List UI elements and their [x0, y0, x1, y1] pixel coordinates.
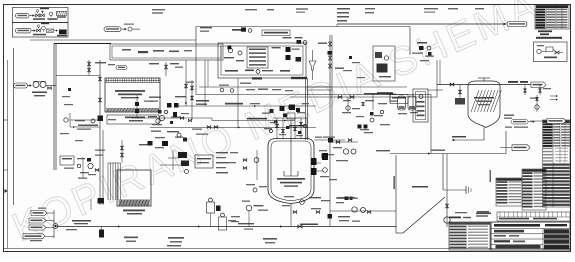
inner boundary y87: [199, 86, 407, 88]
junction two-line label: [196, 100, 209, 102]
vertical x330 lower: [329, 180, 331, 227]
bottom pipe valve: [298, 225, 302, 228]
unit boundary box inner: [221, 46, 303, 75]
unit dark squares right: [286, 47, 291, 52]
small column vessels: [398, 96, 406, 110]
tank T2 shell: [117, 170, 151, 206]
top mid small texts: [95, 62, 106, 63]
reactor motor: [287, 113, 295, 119]
tank T1 lower box: [107, 115, 159, 124]
dark pump pair above: [98, 198, 105, 204]
reactor right comps: [323, 168, 328, 173]
reactor outlet to pipe: [290, 212, 292, 227]
reactor feed header: [273, 117, 307, 119]
dark instrument below pipe: [99, 230, 104, 238]
title block frame: [491, 222, 570, 250]
legend box 2 caption texts: [33, 34, 46, 36]
overhead capsule flag: [531, 82, 546, 88]
equipment table A: [496, 178, 522, 206]
reactor side dark valves: [311, 158, 317, 165]
tank T2 feed valves: [121, 146, 124, 150]
junction cluster texts: [148, 116, 157, 117]
instrument box E outer: [413, 89, 428, 122]
cluster right of B1 box: [417, 42, 427, 44]
reactor agitator impeller: [284, 171, 298, 176]
pipe y190 battery limit: [443, 189, 466, 191]
left vertical drop x72: [69, 113, 71, 127]
feed pumps P1 P2: [33, 82, 39, 88]
legend box 2 arrow: [32, 30, 36, 32]
instrument box y95: [390, 95, 408, 104]
crystallizer shell: [468, 81, 500, 128]
mid right box with comps: [373, 46, 395, 81]
title block company line: [494, 224, 540, 227]
legend box 2 dark equipment box: [59, 30, 67, 35]
texts near strip columns: [231, 216, 240, 217]
unit pumps: [228, 48, 232, 52]
nest lines to right bus: [308, 86, 331, 88]
comps above unit: [232, 29, 243, 31]
cluster left of reactor outlet: [253, 188, 257, 192]
inlet collector line: [53, 210, 55, 238]
top-right reference table: [535, 5, 569, 29]
boundary line top y26.5: [196, 26, 410, 28]
cluster row below unit: [220, 88, 224, 92]
boundary x506: [505, 131, 507, 154]
vertical x192 with valves: [191, 80, 193, 120]
strip column 2: [219, 217, 227, 230]
comp right above T2: [139, 144, 151, 145]
scatter texts upper: [75, 120, 85, 121]
below reactor pump cluster: [246, 205, 252, 211]
junction cluster extra: [158, 110, 162, 114]
header label group I: [475, 8, 484, 9]
mid right pumps: [343, 149, 348, 154]
pump on x447: [444, 217, 450, 223]
thick boundary y43: [54, 43, 111, 45]
product capsule flag: [500, 147, 512, 149]
scatter bits right upper: [352, 62, 360, 63]
mid right pipework: [332, 141, 358, 143]
left cluster extra comps: [87, 158, 91, 162]
arrow into y127: [70, 126, 100, 128]
inlet flag 1: [31, 211, 47, 216]
reactor left instrument texts: [216, 152, 228, 153]
HX dark comps: [178, 152, 187, 158]
bottom reference labels group4: [337, 197, 355, 199]
diagonal drain pipe: [403, 197, 445, 233]
flare stream capsule: [507, 22, 527, 27]
inlet flag 3: [29, 225, 46, 230]
vertical x447 to boundary: [446, 154, 448, 191]
reactor bottom outlet: [290, 204, 292, 213]
header label group F (2 lines): [365, 8, 375, 9]
legend box 1 frame: [13, 8, 69, 23]
legend box 1 caption texts: [33, 18, 45, 20]
pump detail box: [534, 42, 568, 62]
crystallizer top pipe valve: [450, 83, 454, 86]
tank T1 shell: [105, 78, 160, 112]
drawing frame left inner line: [7, 60, 9, 249]
pump labels: [32, 92, 47, 94]
unit texts right: [272, 47, 281, 48]
junction cluster valves: [180, 117, 184, 120]
valve on x447: [445, 204, 448, 208]
revision table strip: [497, 212, 570, 221]
boundary right x431: [430, 95, 432, 154]
left cluster comps: [88, 163, 93, 168]
inlet stream capsule left: [14, 83, 28, 88]
equipment table B: [522, 169, 546, 210]
boundary corner to y26.5: [195, 27, 197, 41]
bottom center cluster comps: [300, 200, 305, 205]
vertical note text left of tables: [490, 170, 492, 182]
boundary x443 lower: [442, 154, 444, 191]
reactor R1 jacket: [268, 139, 314, 204]
box E contents: [419, 95, 423, 99]
junction dark squares top: [167, 103, 172, 108]
funnel symbol: [309, 61, 316, 70]
outer boundary y94.5: [196, 94, 431, 96]
vertical x137 with dark comps: [136, 95, 138, 118]
HX pipes: [168, 157, 178, 159]
riser x91: [90, 199, 92, 210]
dark equipment tags under unit box: [252, 77, 262, 79]
unit bottom row: [225, 70, 238, 72]
notes table frame: [449, 222, 490, 250]
top inlet capsule with arrow: [104, 27, 121, 32]
valve stack x89: [88, 60, 90, 76]
title block row lines: [491, 228, 570, 230]
legend box 2 instrument circle: [42, 26, 46, 30]
header label group G (2 lines): [424, 8, 438, 9]
drain texts: [412, 186, 428, 188]
boundary right x410: [409, 27, 411, 56]
arrows to stream table: [550, 95, 557, 97]
tank T1 coil top: [105, 80, 160, 82]
tank T2 pipe bundle: [107, 163, 109, 200]
tank T2 label: [123, 210, 145, 212]
pipe box E to crystallizer: [428, 89, 443, 91]
frame zone tick marks: [4, 119, 8, 121]
left small box: [60, 156, 74, 165]
pipe y120.5 to reactor: [212, 120, 295, 122]
texts above unit: [200, 27, 212, 28]
small capsule x118: [116, 66, 127, 70]
right stream table header: [543, 120, 571, 207]
header label group C: [267, 9, 274, 10]
header label group E (4 lines): [337, 8, 350, 10]
note box D inner: [112, 46, 221, 58]
arrow from capsule F: [528, 121, 534, 123]
crystallizer label: [474, 97, 494, 99]
dark instrument x100: [98, 116, 104, 122]
title block project line: [494, 230, 524, 233]
header label group A: [152, 9, 165, 10]
HX box: [195, 155, 213, 168]
legend box 2 title: [41, 23, 49, 25]
bottom pipe labels: [72, 220, 91, 222]
reactor nozzle risers: [276, 118, 278, 139]
valve stack right bus: [328, 42, 331, 46]
right stream table middle sparse rows: [543, 148, 553, 149]
detail box F texts: [504, 115, 514, 116]
reactor top fittings: [276, 124, 279, 127]
legend box 1 instrument circle: [49, 12, 52, 15]
unit drop x238 upper: [237, 78, 239, 106]
right stream table rows upper: [543, 123, 553, 125]
reactor label: [277, 178, 305, 180]
bottom reference labels group2: [168, 237, 184, 239]
title block big title text: [496, 245, 541, 249]
header label group D: [296, 8, 308, 9]
valve near pumps: [48, 87, 52, 90]
unit dark instrument: [228, 46, 232, 50]
reactor agitator shaft: [290, 120, 292, 176]
vertical x396: [395, 155, 397, 227]
title block drawn-by line: [494, 240, 510, 242]
vertical x447 lower: [446, 190, 448, 227]
reactor top extra fittings: [274, 121, 278, 124]
overhead labels dark: [508, 81, 518, 83]
scatter bits left mid: [62, 96, 70, 97]
crystallizer bottom outlet: [483, 128, 485, 141]
pipe y97: [290, 96, 437, 98]
valves on x100: [98, 77, 101, 81]
vertical x186 with valve: [185, 60, 187, 106]
pipe y127.5: [150, 127, 316, 129]
legend box 2 control valve: [37, 29, 41, 32]
crystallizer top pipe: [437, 84, 531, 86]
main box left edge: [13, 48, 15, 205]
bottom reference labels group3: [263, 238, 277, 240]
drawing frame bottom inner line: [4, 248, 571, 250]
title block small notes: [494, 235, 506, 237]
note box D outer: [110, 44, 223, 60]
crystallizer top nozzle: [483, 78, 485, 81]
pipe y118 left: [132, 117, 212, 119]
label frame above unit: [262, 30, 290, 36]
inlet flag 2: [29, 218, 46, 223]
crystallizer coil hatch: [471, 90, 479, 112]
pump circle on y120 cluster: [91, 119, 95, 123]
junction lower comps: [177, 133, 181, 137]
reactor R1 inner shell: [271, 141, 311, 201]
legend box 1 arrow: [30, 15, 35, 17]
inlet flag 4: [23, 234, 45, 239]
title block drawing number cells: [544, 229, 569, 233]
header label group B: [245, 9, 257, 10]
boundary left x196 lower: [195, 40, 197, 95]
legend box 1 inlet capsule: [16, 13, 30, 18]
legend box 1 control valve: [36, 14, 40, 17]
legend box 1 title: [40, 8, 49, 10]
note box D texts: [122, 49, 131, 51]
riser to y24 pipe: [336, 24, 338, 27]
junction cluster circles: [159, 115, 164, 120]
unit HX box: [247, 47, 268, 68]
bottom pipe turn to diagonal: [395, 227, 397, 234]
strip column vessel: [207, 202, 215, 213]
vertical x460 with box: [459, 85, 461, 99]
pipe y140 right of reactor: [314, 139, 345, 141]
unit boundary box outer: [218, 43, 306, 78]
instrument box E inner: [416, 92, 426, 120]
vertical x437 crystallizer feed: [436, 60, 438, 97]
top-right table notes text: [538, 30, 552, 32]
tank T2 bottom band: [119, 200, 150, 206]
pipe y106: [176, 105, 316, 107]
reactor left valves: [243, 159, 247, 162]
small text block above title block: [476, 213, 491, 215]
flag capsule G: [530, 120, 547, 122]
boundary line top y40: [30, 39, 196, 41]
bottom outlet pipe arrow: [452, 139, 484, 141]
dark comp below right bus: [322, 153, 328, 160]
legend box 1 hatched box: [57, 11, 67, 15]
pipe y97 comps: [338, 95, 342, 98]
bottom cluster right of center: [336, 198, 346, 199]
tank T1 bottom band: [106, 108, 159, 112]
pipe bus to tank: [56, 75, 100, 77]
header label group H: [448, 8, 458, 9]
mid vertical x100: [99, 60, 101, 205]
rotated line label x396: [393, 176, 395, 189]
tank T2 left texts: [95, 150, 105, 151]
bottom reference labels group1: [124, 237, 138, 239]
box D drop verticals: [204, 60, 206, 106]
unit texts left: [224, 57, 234, 58]
cluster under y95 boundary: [377, 92, 393, 94]
right stream table lower dense rows: [543, 164, 570, 166]
HX pump: [185, 170, 189, 174]
left bus pair: [53, 44, 55, 171]
pump on y120 line: [70, 119, 100, 121]
drop x238: [237, 106, 239, 128]
legend box 1 valve 2: [41, 14, 45, 17]
cluster right-above unit: [283, 37, 292, 38]
reactor left pump: [254, 158, 259, 163]
battery limit ticks: [465, 186, 467, 194]
long pipe y24 to flare: [337, 23, 506, 25]
boundary pipe y153.5: [390, 153, 506, 155]
bottom main pipe y226.5: [57, 226, 396, 228]
tank T1 label: [115, 90, 145, 92]
legend box 2 arrow 2: [54, 30, 57, 32]
right bus pair: [329, 35, 331, 180]
legend box 2 sample box: [47, 29, 54, 32]
cluster x166 valve: [165, 62, 167, 76]
notes table upper caption: [449, 217, 461, 219]
pipe pumps to bus: [46, 85, 56, 87]
collector junction pump: [53, 224, 58, 229]
risers x525 x540: [524, 85, 526, 96]
mid right cluster dark pair: [358, 125, 362, 129]
comp below x537: [536, 95, 538, 112]
legend box 2 inlet capsule: [16, 28, 32, 33]
vertical bus below unit: [305, 78, 307, 140]
left cluster drop: [82, 157, 84, 178]
legend box 2 frame: [13, 23, 69, 38]
cluster mid right extra bits: [352, 108, 360, 109]
mid vertical x103: [102, 130, 104, 205]
